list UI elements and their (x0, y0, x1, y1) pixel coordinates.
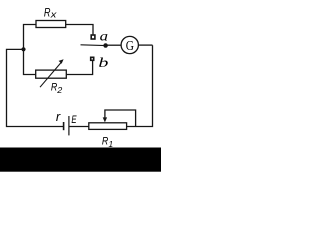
svg-text:G: G (126, 39, 134, 54)
svg-text:R: R (102, 136, 108, 148)
svg-text:x: x (50, 10, 57, 20)
svg-text:r: r (56, 109, 61, 124)
svg-text:a: a (100, 29, 109, 44)
svg-text:2: 2 (56, 85, 62, 95)
svg-text:R: R (44, 8, 51, 20)
svg-text:E: E (71, 114, 77, 126)
svg-text:b: b (98, 55, 108, 70)
